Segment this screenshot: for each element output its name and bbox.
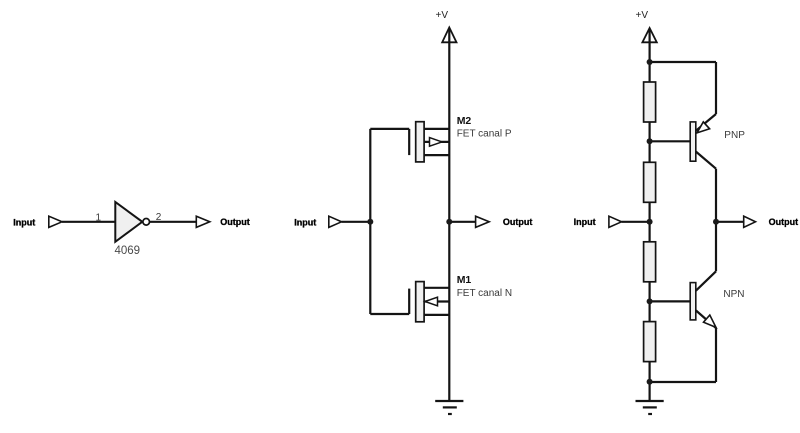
svg-text:PNP: PNP [724, 130, 745, 141]
svg-text:Output: Output [503, 217, 533, 227]
svg-text:Input: Input [574, 217, 596, 227]
svg-text:Output: Output [220, 217, 250, 227]
svg-text:Input: Input [294, 217, 316, 227]
svg-text:NPN: NPN [723, 289, 744, 300]
svg-text:Input: Input [13, 217, 35, 227]
svg-text:+V: +V [435, 10, 448, 21]
svg-text:4069: 4069 [115, 245, 141, 257]
svg-text:FET canal N: FET canal N [457, 288, 512, 299]
svg-text:M2: M2 [457, 115, 472, 127]
svg-text:Output: Output [769, 217, 799, 227]
svg-text:FET canal P: FET canal P [457, 129, 512, 140]
svg-text:2: 2 [156, 212, 162, 223]
svg-text:M1: M1 [457, 274, 472, 286]
svg-text:1: 1 [95, 212, 101, 223]
svg-text:+V: +V [635, 10, 648, 21]
